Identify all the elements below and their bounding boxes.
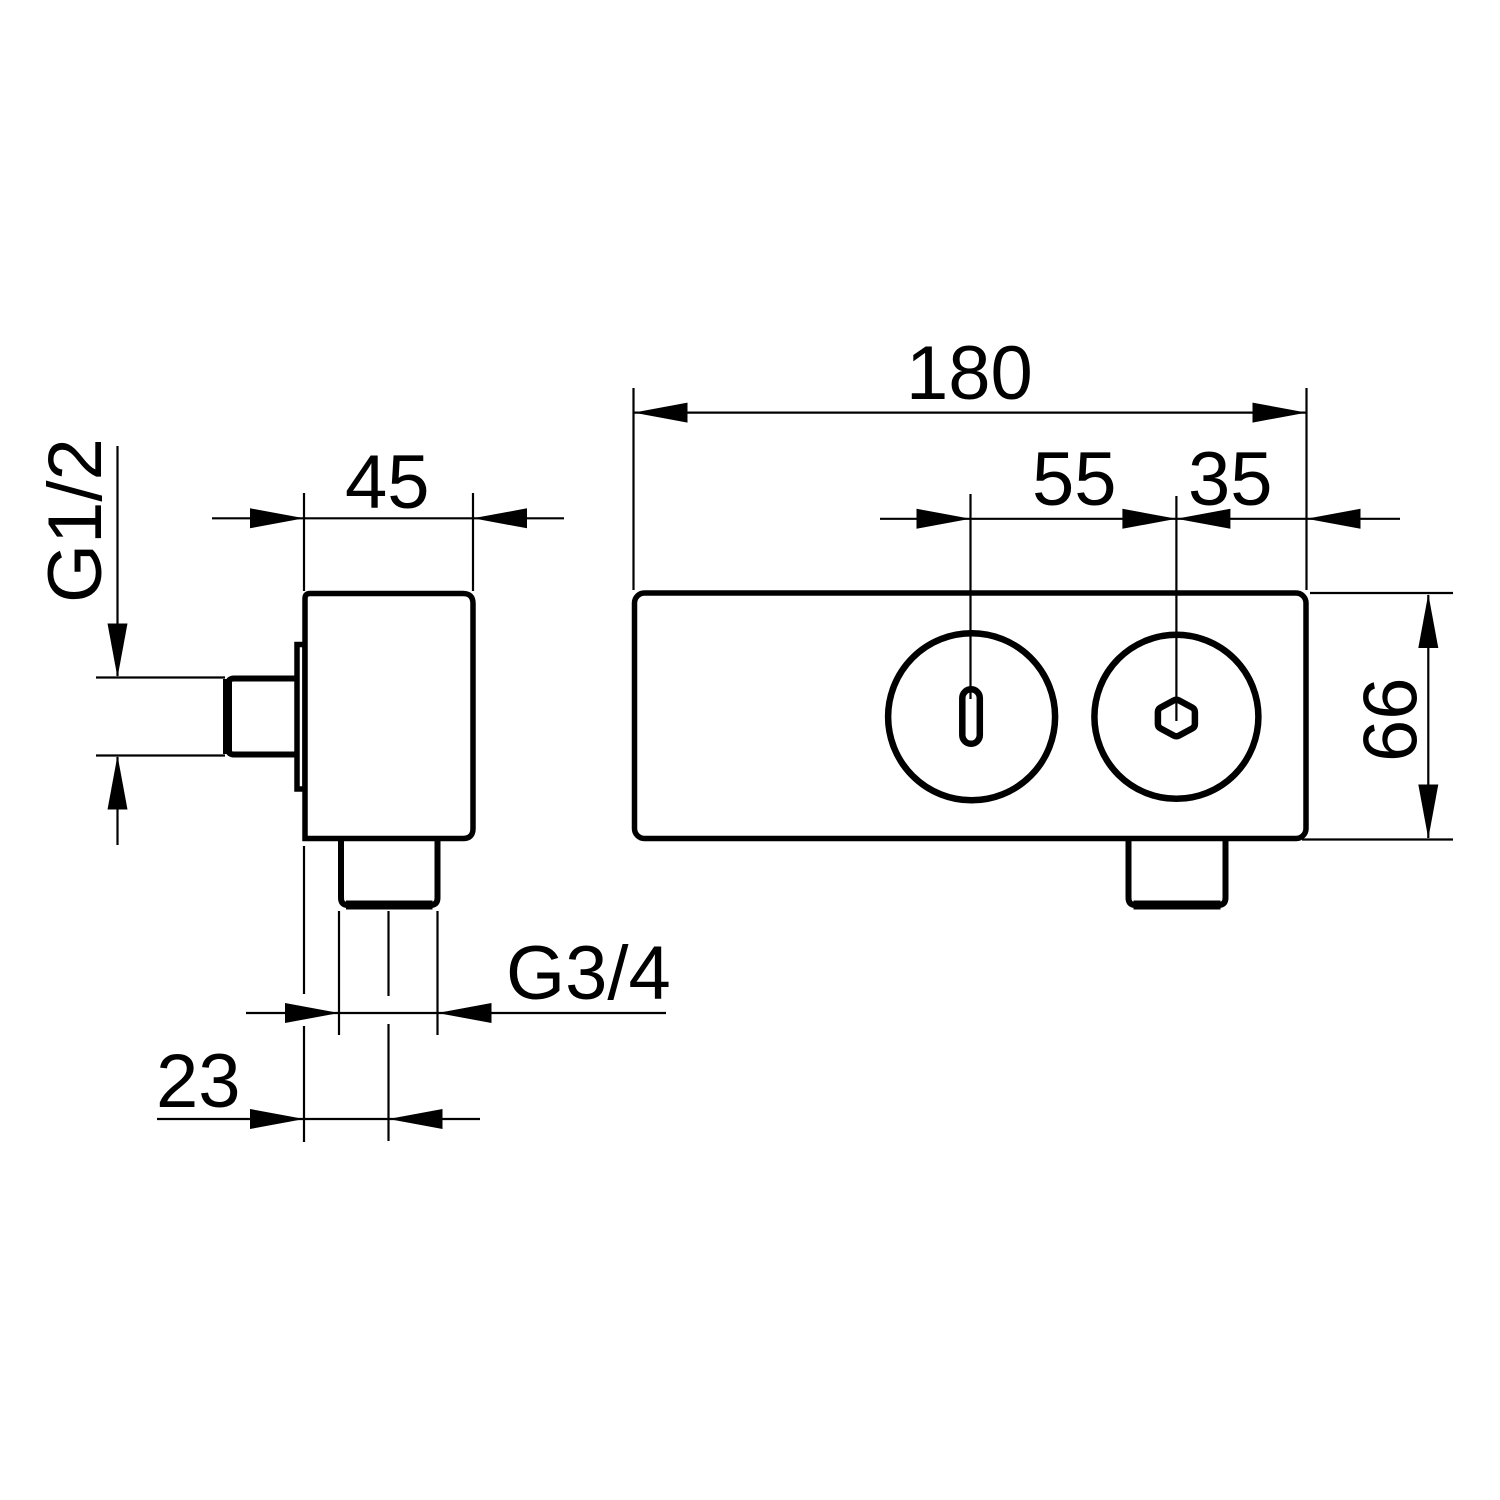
dimension 180 / 35: right extension line [1305, 388, 1307, 590]
dimension 45: right arrowhead [473, 508, 527, 528]
dimension 45: left extension line [303, 493, 305, 591]
dimension 45: left arrowhead [250, 508, 304, 528]
dimension 66: bottom arrowhead (down) [1418, 785, 1438, 839]
valve body (side view) [305, 594, 473, 839]
dimension G1/2: upper arrowhead (down) [108, 624, 128, 678]
hex socket in right circle [1158, 700, 1195, 737]
right control escutcheon circle [1094, 635, 1258, 799]
wall flange plate (side view) [297, 645, 305, 790]
dimension 23: right arrowhead [389, 1109, 443, 1129]
dimension 23: left arrowhead [250, 1109, 304, 1129]
svg-text:66: 66 [1349, 677, 1434, 762]
dimension 55: right arrowhead (pointing left) [1176, 509, 1230, 529]
dimension G1/2: lower dim line segment [116, 757, 118, 845]
dimension 66: bottom extension line [1302, 838, 1453, 840]
nipple thread end face [223, 679, 232, 754]
dimension 23: dimension line [157, 1118, 480, 1120]
outlet pipe G3/4 (side view) thick end face [346, 901, 433, 910]
dimension 23: left extension line lower segment [303, 1026, 305, 1142]
pipe centerline lower segment [387, 1024, 389, 1141]
dimension G3/4: dimension line [246, 1012, 666, 1014]
svg-text:35: 35 [1188, 437, 1273, 522]
dimension 45: right extension line [472, 493, 474, 591]
dimension G1/2: upper dim line segment [116, 446, 118, 676]
dimension 35: left arrowhead (inside pointing right) [1122, 509, 1176, 529]
dimension 66: top arrowhead (up) [1418, 594, 1438, 648]
outlet pipe G3/4 (side view) outline [341, 841, 438, 905]
dimension 66: top extension line [1310, 592, 1453, 594]
valve body (front view) [635, 593, 1307, 839]
dimension 180: left extension line [632, 388, 634, 590]
dimension 45: dimension line [212, 517, 564, 519]
svg-text:45: 45 [345, 440, 430, 525]
dimension 180: left arrowhead [634, 403, 688, 423]
dimension 180: right arrowhead [1253, 403, 1307, 423]
dimension 23: left extension line upper segment [303, 846, 305, 994]
right circle centerline [1175, 496, 1177, 721]
outlet pipe (front view) thick end face [1134, 901, 1221, 910]
dimension 66: dimension line [1427, 595, 1429, 838]
dimension G3/4: right extension line [436, 911, 438, 1035]
dimension 55: left arrowhead (outside) [917, 509, 971, 529]
svg-text:23: 23 [156, 1039, 241, 1124]
dimension G3/4: right arrowhead [438, 1003, 492, 1023]
dimension G3/4: left extension line [338, 911, 340, 1035]
svg-text:G3/4: G3/4 [506, 931, 671, 1016]
left circle centerline [969, 494, 971, 699]
dimension 35: right arrowhead (outside pointing left) [1307, 509, 1361, 529]
pipe centerline upper segment [387, 911, 389, 996]
svg-text:55: 55 [1032, 437, 1117, 522]
outlet pipe (front view) outline [1129, 841, 1226, 905]
dimension G1/2: bottom extension line [96, 754, 225, 756]
inlet nipple G1/2 (side view) [228, 679, 298, 755]
dimension G1/2: lower arrowhead (up) [108, 756, 128, 810]
dimension G3/4: left arrowhead [285, 1003, 339, 1023]
dimension G1/2: top extension line [96, 676, 225, 678]
dimensions 55/35: shared dimension line [880, 518, 1400, 520]
left control escutcheon circle [888, 633, 1055, 800]
svg-text:180: 180 [906, 331, 1033, 416]
svg-text:G1/2: G1/2 [33, 438, 118, 603]
dimension 180: dimension line [634, 412, 1307, 414]
lever slot in left circle [962, 689, 980, 744]
